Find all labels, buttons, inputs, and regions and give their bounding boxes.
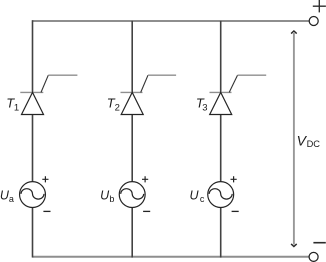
source Ua: [20, 176, 51, 211]
thyristor T2: [121, 75, 177, 114]
wire branch c lower: [220, 207, 222, 257]
label VDC: [297, 132, 321, 149]
wire branch a middle: [32, 115, 34, 182]
terminal plus top right: [313, 0, 326, 12]
node DC- terminal: [309, 252, 318, 261]
terminal minus bottom right: [313, 242, 325, 244]
svg-text:1: 1: [14, 102, 19, 113]
wire branch a upper: [32, 20, 34, 92]
svg-text:U: U: [190, 188, 200, 202]
node DC+ terminal: [309, 17, 318, 26]
svg-text:2: 2: [115, 102, 120, 113]
svg-text:b: b: [109, 194, 114, 204]
VDC arrow: [291, 31, 297, 247]
thyristor T3: [210, 75, 267, 114]
thyristor T1: [20, 75, 77, 114]
svg-text:a: a: [9, 194, 14, 204]
wire branch b lower: [131, 207, 133, 257]
label Ub: [100, 188, 114, 204]
label Uc: [190, 188, 205, 204]
wire branch b middle: [131, 115, 133, 182]
svg-text:c: c: [200, 194, 205, 204]
wire branch c upper: [220, 21, 222, 93]
wire bottom bus: [33, 256, 310, 258]
svg-text:DC: DC: [307, 139, 321, 149]
wire branch b upper: [131, 21, 133, 93]
wire branch c middle: [220, 115, 222, 182]
label T2: [107, 96, 120, 114]
wire branch a lower: [32, 207, 34, 257]
svg-text:3: 3: [202, 102, 207, 113]
label Ua: [0, 188, 14, 204]
source Uc: [208, 176, 239, 211]
label T3: [196, 96, 208, 114]
label T1: [6, 96, 19, 114]
source Ub: [119, 176, 150, 211]
wire top bus: [33, 20, 310, 22]
